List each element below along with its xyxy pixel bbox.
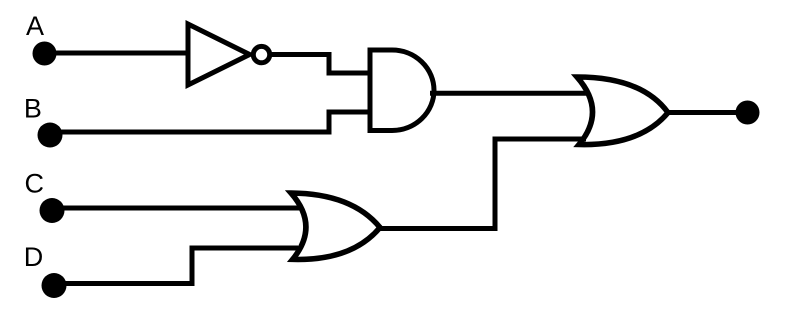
wire OR1 output to output terminal [666, 110, 742, 115]
or-gate U4 (bottom) [291, 193, 380, 259]
output terminal [736, 101, 760, 125]
wire D to OR2 lower input (jog up) [54, 248, 298, 284]
and-gate U2 [370, 50, 434, 131]
inverter U1 bubble [253, 46, 269, 62]
wire inverter output to AND gate upper input (jog down) [268, 55, 372, 74]
svg-text:D: D [24, 242, 44, 272]
node D terminal [42, 273, 67, 298]
wire C to OR2 upper input [52, 206, 301, 211]
wire OR2 output to OR1 lower input (up and over) [378, 139, 586, 229]
node B terminal [38, 123, 63, 148]
inverter U1 triangle [188, 24, 250, 85]
node C terminal [40, 198, 65, 223]
svg-text:A: A [26, 11, 44, 41]
svg-text:C: C [25, 169, 45, 199]
svg-text:B: B [24, 93, 42, 123]
or-gate U3 (top right) [577, 77, 668, 145]
wire AND output to OR1 upper input [430, 91, 588, 96]
node A terminal [33, 42, 57, 66]
wire A to inverter input [44, 51, 190, 56]
wire B to AND gate lower input (jog up) [50, 112, 372, 132]
